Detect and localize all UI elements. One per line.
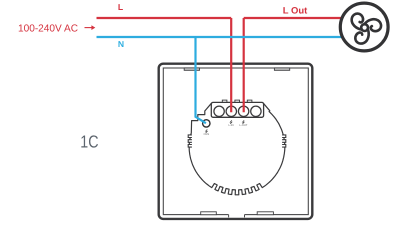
svg-text:L Out: L Out [283,6,308,16]
svg-text:L-OUT: L-OUT [239,124,247,127]
svg-text:N: N [118,39,124,49]
svg-text:100-240V AC: 100-240V AC [18,24,78,35]
svg-text:N-IN: N-IN [204,133,210,136]
svg-text:1C: 1C [80,131,98,151]
svg-text:L: L [118,2,123,12]
svg-text:L-IN: L-IN [229,124,234,127]
